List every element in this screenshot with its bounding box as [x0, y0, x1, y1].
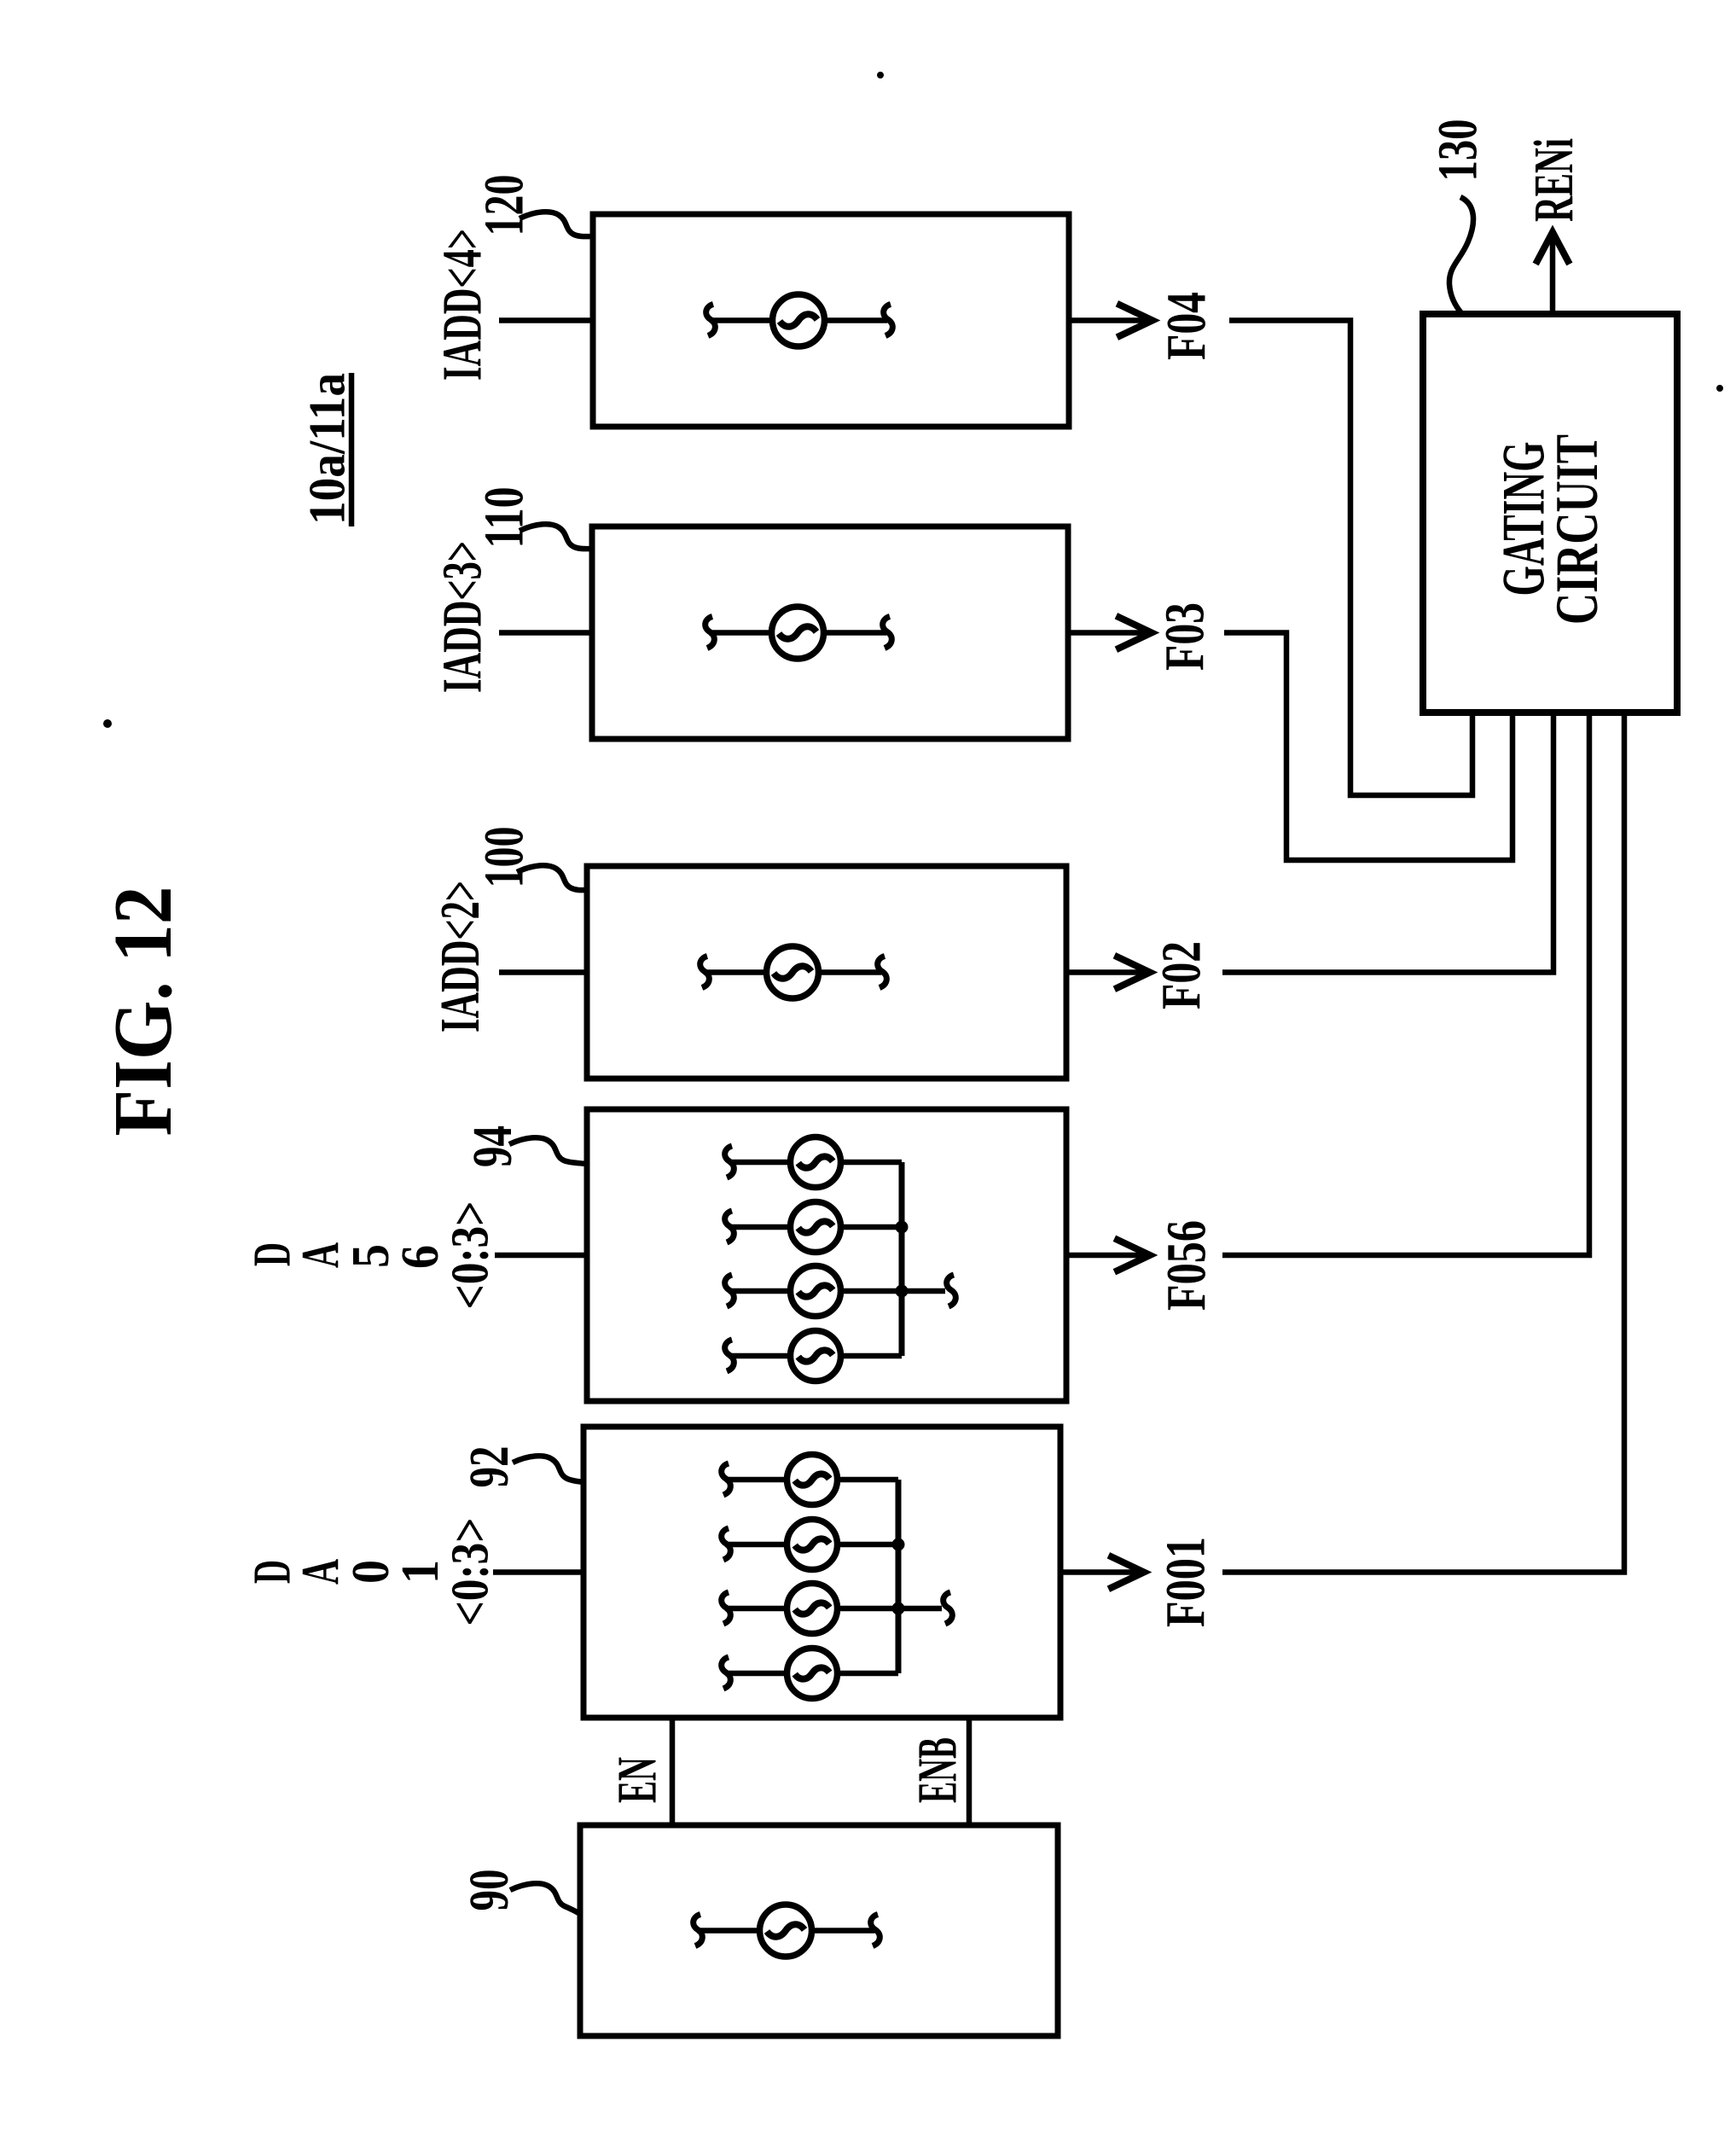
svg-text:120: 120: [473, 175, 536, 236]
leader 110: [520, 524, 592, 549]
svg-text:<0:3>: <0:3>: [442, 1201, 500, 1310]
svg-text:F04: F04: [1156, 292, 1218, 360]
fuse row 1 box 92: [787, 1455, 838, 1505]
scan speck dot 3: [1716, 385, 1723, 392]
wire F001 to gating circuit: [1222, 712, 1624, 1573]
wire fuse box 110 internal: [705, 617, 892, 649]
fuse box 92: [584, 1427, 1060, 1718]
wire enable box 90 internal: [694, 1915, 880, 1946]
fuse row 4 box 92: [787, 1649, 838, 1699]
output arrow RENi: [1537, 232, 1568, 314]
wire F03 to gating circuit: [1224, 633, 1512, 861]
wire fuse box 120 internal: [706, 305, 893, 336]
output arrow F056: [1066, 1240, 1150, 1271]
wire ENB: [967, 1718, 973, 1825]
fuse row 2 box 92: [787, 1520, 838, 1570]
svg-text:RENi: RENi: [1523, 138, 1585, 222]
svg-text:EN: EN: [607, 1757, 669, 1803]
svg-text:A: A: [292, 1242, 350, 1268]
output arrow F04: [1069, 305, 1152, 336]
wire fuse row 1 box 94: [725, 1146, 902, 1178]
scan speck dot 1: [103, 719, 112, 728]
junction dot box 94 row3: [896, 1285, 909, 1298]
bus wire box 92: [896, 1480, 902, 1673]
wire fuse row 2 box 92: [722, 1528, 898, 1560]
bus wire box 94: [899, 1162, 905, 1356]
junction dot box 92 row2: [892, 1538, 905, 1551]
fuse row 4 box 94: [791, 1331, 841, 1381]
fuse row 3 box 94: [791, 1266, 841, 1317]
scan speck dot 2: [877, 72, 884, 79]
leader 120: [520, 212, 593, 236]
svg-text:10a/11a: 10a/11a: [299, 373, 356, 525]
underline 10a/11a: [349, 373, 355, 526]
fuse row 1 box 94: [791, 1137, 841, 1188]
junction dot box 92 row3: [892, 1602, 905, 1615]
fuse box 120: [593, 214, 1069, 427]
wire fuse box 100 internal: [700, 957, 887, 988]
gating circuit 130: [1423, 314, 1677, 712]
fuse fuse box 110: [772, 607, 824, 659]
svg-text:F001: F001: [1155, 1537, 1217, 1627]
enable box 90: [580, 1825, 1058, 2036]
svg-text:110: 110: [473, 487, 536, 549]
svg-text:F03: F03: [1154, 602, 1216, 671]
leader 130: [1449, 197, 1473, 314]
fuse row 3 box 92: [787, 1584, 838, 1634]
svg-text:F02: F02: [1151, 941, 1213, 1009]
wire fuse row 4 box 92: [722, 1657, 898, 1689]
fuse box 94: [587, 1109, 1066, 1401]
wire F04 to gating circuit: [1229, 321, 1472, 796]
svg-text:IADD<4>: IADD<4>: [432, 229, 494, 381]
svg-text:A: A: [292, 1559, 350, 1585]
input wire DA01<0:3>: [493, 1569, 584, 1575]
svg-text:94: 94: [462, 1125, 524, 1167]
fuse enable box 90: [760, 1905, 812, 1957]
output arrow F03: [1068, 618, 1152, 649]
svg-text:<0:3>: <0:3>: [442, 1518, 500, 1626]
svg-text:IADD<2>: IADD<2>: [429, 881, 491, 1032]
svg-text:130: 130: [1427, 119, 1489, 182]
input wire DA56<0:3>: [495, 1253, 587, 1259]
input wire IADD<3>: [499, 630, 592, 636]
svg-text:FIG. 12: FIG. 12: [97, 887, 189, 1137]
wire fuse row 3 box 94: [725, 1275, 956, 1306]
svg-text:IADD<3>: IADD<3>: [432, 541, 494, 693]
wire fuse row 3 box 92: [722, 1592, 953, 1624]
output arrow F001: [1060, 1557, 1144, 1588]
svg-text:100: 100: [473, 827, 536, 888]
leader 94: [509, 1137, 587, 1164]
wire fuse row 1 box 92: [722, 1463, 898, 1495]
svg-text:92: 92: [458, 1446, 520, 1488]
wire fuse row 4 box 94: [725, 1340, 902, 1371]
junction dot box 94 row2: [896, 1221, 909, 1234]
wire F056 to gating circuit: [1222, 712, 1589, 1255]
svg-text:F056: F056: [1156, 1220, 1218, 1311]
fuse fuse box 100: [767, 946, 819, 998]
fuse box 100: [587, 866, 1066, 1079]
svg-text:CIRCUIT: CIRCUIT: [1544, 434, 1611, 625]
output arrow F02: [1066, 957, 1150, 988]
input wire IADD<2>: [499, 969, 587, 975]
wire EN: [670, 1718, 676, 1825]
wire F02 to gating circuit: [1222, 712, 1553, 973]
input wire IADD<4>: [499, 317, 593, 323]
leader 90: [510, 1883, 580, 1914]
leader 92: [513, 1456, 584, 1482]
fuse box 110: [592, 526, 1068, 739]
leader 100: [517, 865, 587, 890]
svg-text:ENB: ENB: [907, 1737, 969, 1803]
fuse fuse box 120: [773, 294, 825, 346]
fuse row 2 box 94: [791, 1202, 841, 1253]
wire fuse row 2 box 94: [725, 1211, 902, 1242]
